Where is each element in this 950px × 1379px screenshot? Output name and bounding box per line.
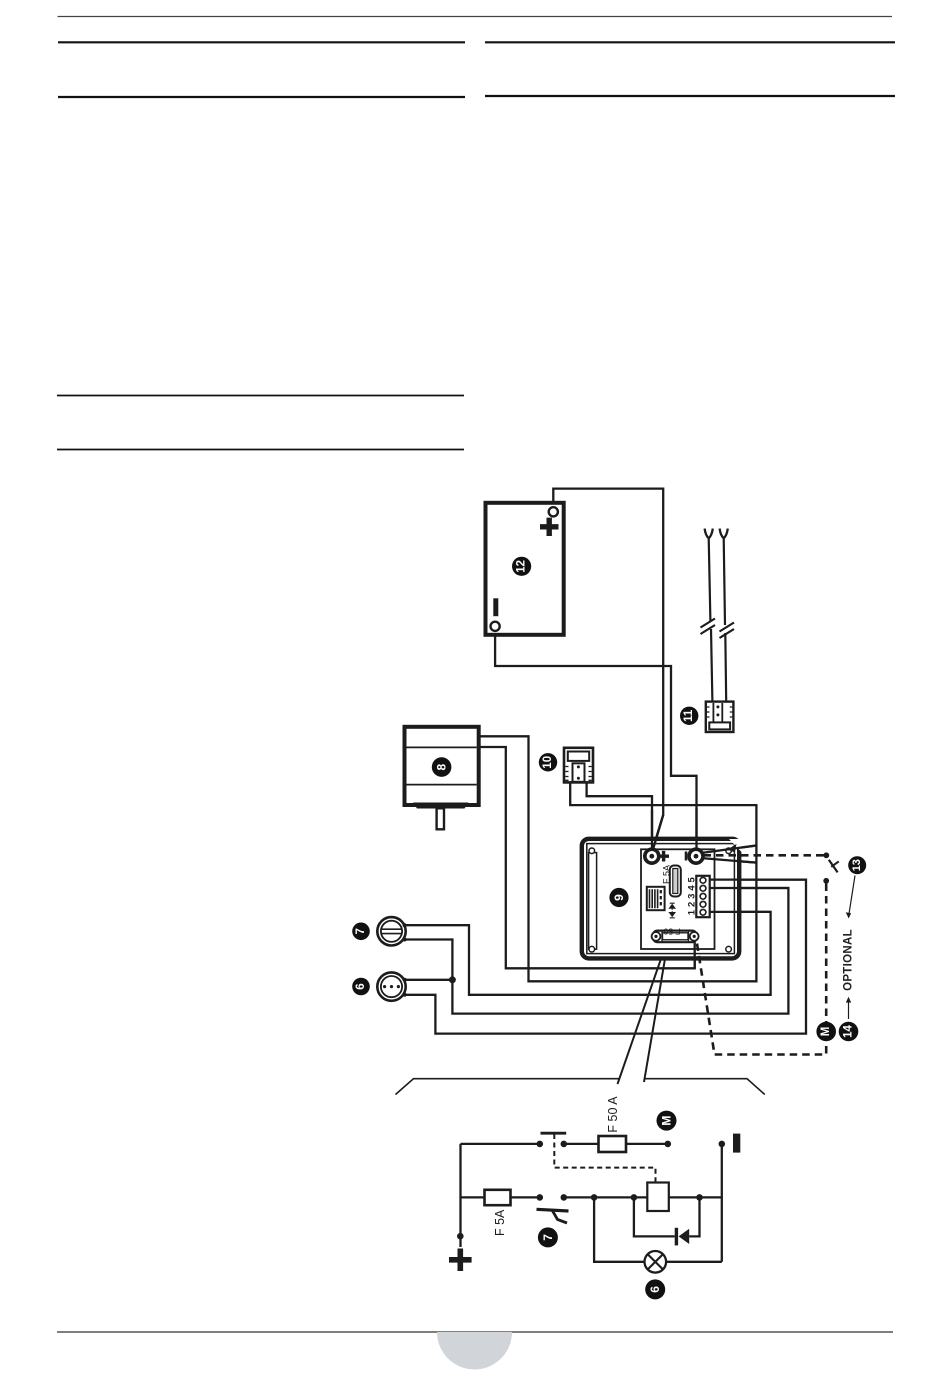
svg-text:7: 7 [355, 928, 367, 934]
svg-text:3: 3 [687, 894, 698, 899]
svg-text:1: 1 [687, 909, 698, 915]
svg-text:F 5A: F 5A [493, 1209, 507, 1236]
svg-text:5: 5 [687, 876, 698, 882]
svg-text:M: M [660, 1116, 674, 1126]
svg-text:F 50 A: F 50 A [606, 1096, 620, 1133]
svg-text:11: 11 [683, 709, 695, 722]
svg-text:M: M [820, 1027, 832, 1037]
svg-text:12: 12 [516, 560, 528, 573]
svg-text:F 50: F 50 [663, 927, 680, 937]
svg-text:13: 13 [851, 859, 863, 871]
svg-text:4: 4 [687, 885, 698, 891]
svg-text:14: 14 [843, 1025, 855, 1038]
svg-text:F 5A: F 5A [661, 865, 671, 884]
svg-text:7: 7 [541, 1234, 555, 1241]
svg-text:6: 6 [648, 1286, 662, 1293]
svg-text:6: 6 [355, 983, 367, 989]
svg-text:2: 2 [687, 902, 698, 907]
svg-text:9: 9 [612, 894, 626, 901]
svg-text:OPTIONAL: OPTIONAL [843, 929, 855, 991]
svg-text:10: 10 [542, 756, 554, 769]
svg-text:8: 8 [435, 763, 449, 770]
